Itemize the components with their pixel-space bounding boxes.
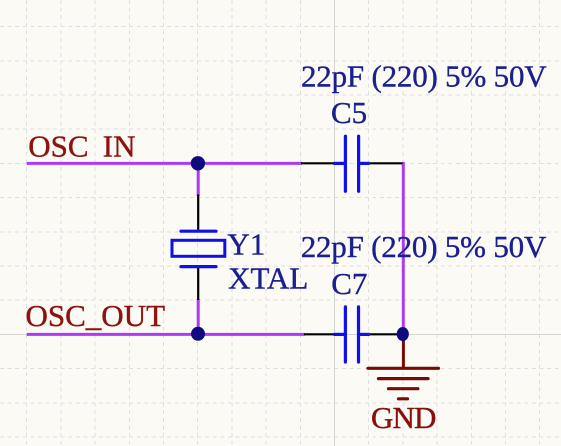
node junction right (C7 / GND / wire) [397,327,409,341]
svg-text:GND: GND [371,400,436,435]
svg-text:OSC: OSC [28,128,88,163]
svg-text:Y1: Y1 [227,227,265,262]
crystal Y1 top plate [181,230,216,233]
ground bar 4 [399,397,408,400]
svg-text:XTAL: XTAL [228,261,308,296]
crystal Y1 pin 2 (bottom lead) [197,267,199,300]
capacitor C7 right plate [357,307,360,362]
wire crystal bottom pin down to bottom junction [197,299,200,334]
crystal Y1 bottom plate [181,265,216,268]
wire right vertical from C5 to C7/GND [402,162,405,334]
capacitor C7 right blue tick [360,333,370,336]
ground bar 1 [368,367,439,370]
capacitor C7 pin 1 (left lead) [304,333,334,335]
capacitor C5 right plate [357,136,360,191]
node junction bottom (OSC_OUT / Y1) [191,327,205,341]
svg-text:22pF (220) 5% 50V: 22pF (220) 5% 50V [301,59,547,94]
ground bar 2 [379,377,429,380]
svg-text:C5: C5 [331,95,367,130]
capacitor C5 pin 2 (right lead) [370,162,403,164]
wire OSC_OUT horizontal [27,333,305,336]
svg-text:22pF (220) 5% 50V: 22pF (220) 5% 50V [301,229,547,264]
capacitor C5 pin 1 (left lead) [301,162,334,164]
capacitor C5 left blue tick [334,162,345,165]
ground bar 3 [389,387,418,390]
node junction top (OSC_IN / Y1) [191,156,205,170]
crystal Y1 body rectangle [172,240,225,256]
svg-text:C7: C7 [331,266,367,301]
capacitor C5 left plate [344,136,347,191]
ground symbol GND stem [402,334,405,368]
svg-text:IN: IN [103,128,136,163]
wire OSC_IN horizontal [27,162,302,165]
capacitor C5 right blue tick [360,162,370,165]
svg-text:OSC_OUT: OSC_OUT [26,298,166,333]
capacitor C7 pin 2 (right lead) [370,333,402,335]
crystal Y1 pin 1 (top lead) [197,195,199,230]
wire top junction down to crystal pin [197,163,200,196]
capacitor C7 left blue tick [334,333,345,336]
capacitor C7 left plate [344,307,347,362]
